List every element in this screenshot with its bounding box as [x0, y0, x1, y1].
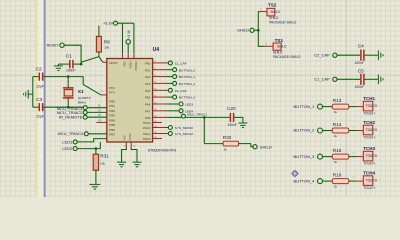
svg-text:22pF: 22pF [36, 115, 44, 119]
svg-text:1k: 1k [334, 134, 338, 138]
svg-text:R31: R31 [100, 154, 109, 159]
svg-text:22pF: 22pF [36, 85, 44, 89]
terminal LED4 [153, 110, 167, 112]
svg-text:PA10: PA10 [143, 121, 151, 125]
svg-text:VDD: VDD [123, 61, 127, 67]
terminal BUTTON_2 [153, 69, 167, 71]
svg-text:TCH3: TCH3 [363, 146, 375, 151]
svg-text:1k: 1k [334, 160, 338, 164]
svg-text:LED2: LED2 [62, 146, 73, 151]
svg-text:R15: R15 [333, 148, 342, 153]
svg-text:C2_CAP: C2_CAP [175, 89, 187, 93]
ground [377, 75, 379, 85]
svg-text:8MHz: 8MHz [78, 100, 87, 104]
svg-text:BUTTON_3: BUTTON_3 [293, 154, 315, 159]
svg-text:SHILD: SHILD [277, 44, 287, 48]
svg-text:PB5: PB5 [109, 123, 115, 127]
pin VDDIO2 [133, 54, 135, 59]
svg-text:PB7: PB7 [109, 133, 115, 137]
svg-text:MCU_TRIAC4: MCU_TRIAC4 [57, 131, 83, 136]
svg-text:SHILD: SHILD [260, 144, 272, 149]
svg-text:TCH2: TCH2 [363, 120, 375, 125]
touch sensor TCH1 [356, 106, 363, 108]
ground [28, 93, 33, 95]
resistor R16 [323, 180, 333, 182]
svg-text:MCU_TRIAC1: MCU_TRIAC1 [187, 113, 207, 117]
terminal BUTTON_4 [153, 82, 167, 84]
svg-text:100nF: 100nF [228, 123, 237, 127]
svg-text:TCH1: TCH1 [363, 96, 375, 101]
svg-text:TOUCH: TOUCH [363, 186, 375, 190]
svg-text:BUTTON_4: BUTTON_4 [179, 82, 195, 86]
pin VSS stub [125, 142, 127, 147]
crystal X1 [67, 75, 70, 78]
svg-text:PA15: PA15 [143, 137, 151, 141]
svg-text:RESET: RESET [47, 43, 60, 47]
svg-text:VDDA: VDDA [128, 61, 132, 68]
junction on reset net [80, 63, 83, 66]
svg-text:PB1: PB1 [109, 104, 115, 108]
svg-text:PA0: PA0 [145, 62, 151, 66]
svg-text:R8: R8 [104, 40, 110, 45]
svg-text:PF1: PF1 [109, 91, 115, 95]
svg-text:BUTTON_2: BUTTON_2 [179, 68, 195, 72]
svg-text:10k: 10k [100, 161, 105, 165]
svg-text:C20: C20 [227, 106, 236, 111]
svg-text:PB4: PB4 [109, 119, 115, 123]
microcontroller U4 STM32F042K4T6 body [107, 59, 153, 143]
right pin numbers [154, 61, 157, 139]
svg-text:SHILD: SHILD [273, 50, 283, 54]
svg-text:IR_REMOTE: IR_REMOTE [59, 115, 83, 120]
terminal SYS_SWCLK [153, 133, 167, 135]
svg-text:BUTTON_1: BUTTON_1 [179, 75, 195, 79]
pin VDD [122, 54, 124, 59]
pin VSSA stub [130, 142, 132, 147]
svg-text:C2_CAP: C2_CAP [314, 53, 330, 58]
wire MCU_TRIAC1 net [185, 116, 229, 118]
svg-text:TCH4: TCH4 [363, 170, 375, 175]
svg-text:LED3: LED3 [185, 103, 193, 107]
svg-text:PA1: PA1 [145, 68, 151, 72]
svg-text:C4: C4 [358, 44, 364, 49]
svg-text:C2: C2 [36, 67, 42, 72]
ground [242, 117, 244, 122]
svg-text:BUTTON_2: BUTTON_2 [293, 128, 315, 133]
svg-text:NRST: NRST [109, 61, 117, 65]
svg-text:TS2: TS2 [268, 3, 277, 8]
svg-text:100nF: 100nF [355, 85, 364, 89]
svg-text:TOUCH: TOUCH [366, 104, 378, 108]
pin stub PA10 [153, 122, 162, 124]
svg-text:PA9: PA9 [145, 116, 151, 120]
svg-text:C1_CAP: C1_CAP [314, 77, 330, 82]
svg-text:LED1: LED1 [62, 139, 73, 144]
svg-text:TOUCH: TOUCH [366, 179, 378, 183]
svg-text:1k: 1k [334, 110, 338, 114]
wire [122, 23, 124, 54]
terminal BUTTON_3 [153, 96, 167, 98]
svg-text:PA4: PA4 [145, 89, 151, 93]
ground [133, 161, 142, 163]
terminal LED3 [153, 103, 167, 105]
svg-text:PB6: PB6 [109, 128, 115, 132]
svg-text:SYS_SWDIO: SYS_SWDIO [175, 126, 194, 130]
svg-text:+3.3V: +3.3V [103, 22, 113, 26]
svg-text:R13: R13 [333, 98, 342, 103]
terminal C1_CAP [153, 62, 167, 64]
wire [122, 147, 127, 162]
svg-text:PB2: PB2 [109, 109, 115, 113]
svg-text:BUTTON_4: BUTTON_4 [293, 178, 315, 183]
svg-text:C5: C5 [358, 68, 364, 73]
svg-text:PA5: PA5 [145, 96, 151, 100]
resistor R14 [323, 130, 333, 132]
capacitor C4 [337, 54, 360, 56]
svg-text:1k: 1k [224, 147, 228, 151]
wire [127, 44, 129, 54]
svg-text:PA14: PA14 [143, 132, 151, 136]
svg-text:VSSA: VSSA [128, 133, 132, 140]
sheet guide lines (decorative) [38, 0, 44, 197]
resistor R8 [98, 26, 100, 37]
capacitor C5 [337, 78, 360, 80]
svg-text:R16: R16 [333, 173, 342, 178]
svg-text:SHILD: SHILD [269, 16, 279, 20]
pin stub PB4 [96, 121, 107, 123]
svg-text:1k: 1k [334, 184, 338, 188]
svg-text:VSS: VSS [123, 135, 127, 140]
svg-text:+3.3V: +3.3V [127, 29, 131, 39]
svg-text:C3: C3 [36, 97, 42, 102]
resistor R31 [95, 147, 98, 150]
svg-text:PB0: PB0 [109, 99, 115, 103]
svg-text:TOUCH: TOUCH [363, 112, 375, 116]
wire [32, 77, 34, 108]
svg-text:PACKAGE=SHILD: PACKAGE=SHILD [273, 55, 301, 59]
svg-text:PA7: PA7 [145, 109, 151, 113]
svg-text:VDDIO2: VDDIO2 [134, 61, 138, 71]
svg-text:PB3: PB3 [109, 114, 115, 118]
svg-text:TOUCH: TOUCH [366, 128, 378, 132]
right pin names [143, 62, 151, 141]
wire [131, 147, 137, 162]
pin stub PA15 [153, 138, 162, 140]
svg-text:TOUCH: TOUCH [363, 162, 375, 166]
ground [57, 64, 59, 66]
touch sensor TCH3 [356, 156, 363, 158]
svg-text:C1: C1 [66, 53, 72, 58]
svg-text:TS1: TS1 [275, 38, 284, 43]
wire [83, 77, 101, 95]
svg-text:X1: X1 [78, 89, 84, 95]
svg-text:R32: R32 [223, 135, 232, 140]
svg-text:SHILD: SHILD [271, 10, 281, 14]
svg-text:100nF: 100nF [355, 61, 364, 65]
resistor R13 [323, 106, 333, 108]
resistor R15 [323, 156, 333, 158]
wire [133, 23, 135, 54]
svg-text:PA3: PA3 [145, 82, 151, 86]
wire [64, 45, 81, 64]
ground [90, 183, 101, 185]
terminal MCU_TRIAC1 [153, 116, 167, 118]
svg-text:STM32F042K4T6: STM32F042K4T6 [148, 148, 176, 152]
wire [258, 12, 265, 47]
pin NRST [103, 61, 107, 63]
pin VDDA [127, 54, 129, 59]
terminal SHILD [251, 144, 253, 147]
svg-text:C1_CAP: C1_CAP [175, 62, 187, 66]
svg-text:BUTTON_1: BUTTON_1 [293, 104, 315, 109]
wire [99, 57, 103, 63]
terminal C2_CAP [153, 89, 167, 91]
ground [377, 50, 379, 60]
wire [81, 57, 99, 63]
svg-text:BUTTON_3: BUTTON_3 [179, 96, 195, 100]
wire [118, 22, 134, 24]
svg-text:TOUCH: TOUCH [366, 154, 378, 158]
svg-text:SHILD: SHILD [237, 28, 249, 33]
svg-text:U4: U4 [153, 47, 160, 53]
wire [101, 94, 107, 96]
svg-text:SYS_SWCLK: SYS_SWCLK [175, 132, 195, 136]
svg-text:PACKAGE=SHILD: PACKAGE=SHILD [269, 21, 297, 25]
svg-text:100nF: 100nF [66, 68, 75, 72]
svg-text:PF0: PF0 [109, 86, 115, 90]
svg-text:PA2: PA2 [145, 75, 151, 79]
node marker [292, 170, 298, 176]
left pin names [109, 86, 115, 137]
touch sensor TCH4 [356, 180, 363, 182]
svg-text:PA6: PA6 [145, 102, 151, 106]
svg-text:10k: 10k [104, 46, 109, 50]
terminal SYS_SWDIO [153, 127, 167, 129]
ground [117, 161, 126, 163]
svg-text:R14: R14 [333, 122, 342, 127]
touch sensor TCH2 [356, 130, 363, 132]
svg-text:PA13: PA13 [143, 126, 151, 130]
terminal BUTTON_1 [153, 76, 167, 78]
svg-text:TOUCH: TOUCH [363, 136, 375, 140]
